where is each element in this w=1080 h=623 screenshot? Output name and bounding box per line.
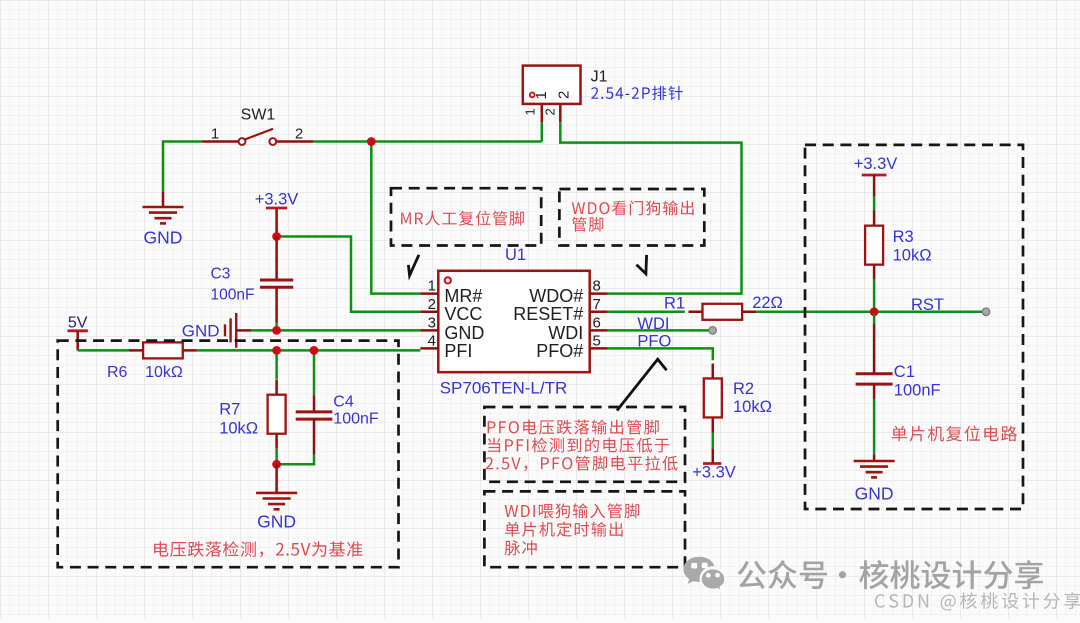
label J1 value 2.54-2P排针 xyxy=(591,86,683,100)
J1 pin 1 xyxy=(523,104,542,122)
wire: U1 PFO# (pin 5) to R2 xyxy=(608,348,713,360)
watermark text: 公众号 xyxy=(737,560,827,589)
svg-text:1: 1 xyxy=(533,91,550,99)
wire: R3 to RST junction xyxy=(873,280,876,314)
capacitor C4 xyxy=(296,396,333,455)
annotation text: 单片机复位电路 xyxy=(892,426,1017,442)
U1 pin 8 WDO# xyxy=(529,278,608,306)
svg-text:WDI: WDI xyxy=(548,323,583,343)
power 5V xyxy=(68,314,88,350)
junction (C3 / GND wire) xyxy=(272,326,281,335)
J1 pin 2 xyxy=(543,104,561,122)
svg-text:GND: GND xyxy=(855,484,894,504)
op-amp / IC U1 body xyxy=(438,271,589,372)
svg-text:R1: R1 xyxy=(664,295,685,313)
svg-text:2: 2 xyxy=(428,296,436,313)
svg-text:100nF: 100nF xyxy=(894,382,941,400)
wire: R1 to RST terminal xyxy=(756,311,986,314)
junction (R1 / R3 / C1 / RST) xyxy=(870,307,879,316)
junction (+3.3V / C3 / VCC) xyxy=(272,232,281,241)
annotation text: 脉冲 (line 3) xyxy=(505,540,537,555)
svg-text:GND: GND xyxy=(144,228,183,248)
svg-text:3: 3 xyxy=(428,314,436,331)
wire: +3.3V node to U1 VCC (pin 2) xyxy=(277,237,421,312)
ground GND (left, SW1) xyxy=(143,192,184,248)
wire: 5V to R6 xyxy=(78,349,130,352)
net label GND (sideways, U1 pin 3 net) xyxy=(182,313,251,348)
wire: R2 to +3.3V (inverted) xyxy=(712,433,715,450)
U1 pin 7 RESET# xyxy=(513,296,608,324)
svg-text:WDI: WDI xyxy=(637,315,669,333)
wire: C4 to GND junction xyxy=(277,454,314,464)
junction (R7 / PFI rail) xyxy=(272,346,281,355)
wire: PFI rail to C4 xyxy=(313,350,316,395)
svg-text:22Ω: 22Ω xyxy=(752,294,783,312)
svg-text:R7: R7 xyxy=(219,401,240,419)
svg-text:RESET#: RESET# xyxy=(513,304,583,324)
svg-text:10kΩ: 10kΩ xyxy=(893,247,932,265)
U1 pin 3 GND xyxy=(420,314,484,342)
svg-text:4: 4 xyxy=(428,332,436,349)
power +3.3V (below R2, inverted) xyxy=(692,449,736,482)
U1 pin 4 PFI xyxy=(420,332,472,360)
connector J1 body xyxy=(523,66,581,104)
svg-text:2: 2 xyxy=(543,108,558,115)
svg-text:WDO#: WDO# xyxy=(529,286,583,306)
junction (C4 / PFI rail) xyxy=(310,346,319,355)
resistor R1 xyxy=(689,304,757,320)
annotation text: WDO看门狗输出 (line 1) xyxy=(572,201,694,216)
terminal: WDI dangling end xyxy=(709,327,717,335)
svg-text:R3: R3 xyxy=(893,228,914,246)
U1 pin 5 PFO# xyxy=(536,332,608,360)
annotation box: WDI喂狗输入管脚 xyxy=(484,491,685,567)
capacitor C1 xyxy=(856,324,893,399)
svg-text:R2: R2 xyxy=(733,380,754,398)
svg-text:+3.3V: +3.3V xyxy=(692,464,736,482)
watermark text: separator dot xyxy=(839,571,846,578)
annotation box: PFO电压跌落输出管脚 xyxy=(484,407,685,482)
ground GND (right, C1) xyxy=(854,455,895,504)
annotation text: WDI喂狗输入管脚 (line 1) xyxy=(505,503,640,518)
svg-text:1: 1 xyxy=(428,278,436,295)
annotation text: 电压跌落检测，2.5V为基准 xyxy=(154,541,362,557)
annotation text: 2.5V，PFO管脚电平拉低 (line 3) xyxy=(486,456,678,471)
annotation text: PFO电压跌落输出管脚 (line 1) xyxy=(488,420,659,435)
svg-text:+3.3V: +3.3V xyxy=(255,191,299,209)
svg-text:MR#: MR# xyxy=(444,286,482,306)
svg-text:C4: C4 xyxy=(333,394,354,411)
wire: RST junction to C1 xyxy=(873,313,876,324)
wire: junction to U1 MR# (pin 1) xyxy=(371,142,420,294)
annotation arrow (MR pin) xyxy=(408,255,419,276)
resistor R6 xyxy=(129,342,197,358)
resistor R3 xyxy=(865,211,883,280)
svg-text:PFO#: PFO# xyxy=(536,341,583,361)
power +3.3V (C3/VCC node) xyxy=(255,191,299,237)
junction (SW1 / J1 / MR# net) xyxy=(367,137,376,146)
svg-text:U1: U1 xyxy=(505,246,526,264)
svg-text:100nF: 100nF xyxy=(333,411,379,428)
svg-text:7: 7 xyxy=(593,296,601,313)
svg-text:SP706TEN-L/TR: SP706TEN-L/TR xyxy=(440,379,568,398)
svg-text:C1: C1 xyxy=(894,363,915,381)
wire: GND net to U1 GND (pin 3) xyxy=(251,329,420,332)
U1 pin 1 MR# xyxy=(420,278,482,306)
svg-text:+3.3V: +3.3V xyxy=(854,155,898,173)
svg-text:10kΩ: 10kΩ xyxy=(145,364,183,381)
watermark text: CSDN @核桃设计分享 xyxy=(875,592,1080,610)
svg-text:J1: J1 xyxy=(591,69,608,86)
resistor R7 xyxy=(268,380,286,449)
wire: U1 WDI (pin 6) dangling xyxy=(608,329,713,332)
terminal: RST open pin xyxy=(982,308,990,316)
svg-text:GND: GND xyxy=(182,322,220,341)
wire: SW1 pin 1 to GND xyxy=(163,142,202,193)
svg-text:GND: GND xyxy=(444,323,484,343)
svg-text:100nF: 100nF xyxy=(211,287,255,304)
junction (R7 / C4 / GND) xyxy=(272,460,281,469)
svg-text:1: 1 xyxy=(523,108,538,115)
svg-text:GND: GND xyxy=(257,512,296,532)
wire: SW1 pin 2 to J1 pin 1 xyxy=(313,122,542,141)
svg-text:1: 1 xyxy=(211,126,219,143)
annotation text: 当PFI检测到的电压低于 (line 2) xyxy=(488,438,669,453)
svg-text:SW1: SW1 xyxy=(241,107,276,124)
annotation box: 电压跌落检测 (bottom left) xyxy=(58,341,399,568)
annotation arrow (WDO pin) xyxy=(636,255,646,274)
resistor R2 xyxy=(704,363,722,432)
annotation arrow (PFO pin) xyxy=(617,359,667,410)
U1 pin 6 WDI xyxy=(548,314,608,342)
wire: U1 RESET# (pin 7) to R1 xyxy=(608,311,685,314)
ground GND (bottom, R7/C4) xyxy=(256,464,297,531)
wire: R7 to GND junction xyxy=(275,449,278,464)
wire: PFI rail to R7 xyxy=(275,350,278,379)
svg-text:RST: RST xyxy=(911,296,944,314)
capacitor C3 xyxy=(260,237,293,323)
wire: J1 pin 2 to U1 WDO# (pin 8) xyxy=(560,122,741,293)
wire: C1 to GND (right) xyxy=(873,399,876,455)
U1 pin 2 VCC xyxy=(420,296,482,324)
annotation text: 单片机定时输出 (line 2) xyxy=(505,522,623,537)
annotation text: 管脚 (line 2) xyxy=(572,217,603,232)
svg-text:5: 5 xyxy=(593,332,601,349)
svg-text:2: 2 xyxy=(295,126,303,143)
svg-text:VCC: VCC xyxy=(444,304,482,324)
annotation box: 单片机复位电路 (right) xyxy=(805,145,1023,509)
annotation text: MR人工复位管脚 xyxy=(401,211,524,226)
svg-text:6: 6 xyxy=(593,314,601,331)
svg-text:R6: R6 xyxy=(107,364,128,381)
svg-text:8: 8 xyxy=(593,278,601,295)
watermark text: 核桃设计分享 xyxy=(859,560,1043,589)
watermark: WeChat icon xyxy=(683,557,725,592)
svg-text:10kΩ: 10kΩ xyxy=(219,420,258,438)
switch SW1 xyxy=(202,107,313,145)
svg-text:C3: C3 xyxy=(211,266,231,283)
wire: +3.3V to R3 xyxy=(873,196,876,212)
annotation box: MR人工复位管脚 xyxy=(391,188,541,245)
annotation box: WDO看门狗输出管脚 xyxy=(559,189,704,246)
svg-text:5V: 5V xyxy=(68,314,88,331)
svg-text:2: 2 xyxy=(556,91,573,99)
power +3.3V (R3) xyxy=(854,155,898,196)
svg-text:10kΩ: 10kΩ xyxy=(733,398,772,416)
wire: C3 to GND net xyxy=(275,323,278,331)
wire: R6 to U1 PFI (pin 4) xyxy=(197,349,421,352)
svg-text:PFI: PFI xyxy=(444,341,472,361)
